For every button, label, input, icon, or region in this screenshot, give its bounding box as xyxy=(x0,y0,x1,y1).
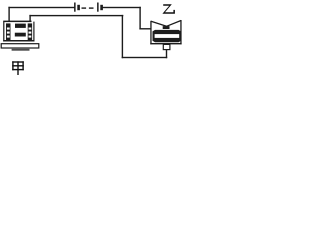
wire bottom horizontal xyxy=(122,57,168,58)
receiver case bottom edge xyxy=(150,43,181,44)
receiver right case edge xyxy=(180,20,181,44)
wire right vertical drop xyxy=(139,7,140,30)
receiver diaphragm left diagonal xyxy=(151,21,167,26)
wire inner stub vertical xyxy=(29,15,30,21)
receiver armature knob xyxy=(163,26,170,29)
wire inner vertical long xyxy=(122,15,123,58)
microphone M1 base plate xyxy=(1,44,39,48)
microphone M1 left hatched wall column xyxy=(6,23,11,40)
wire top right horizontal xyxy=(102,7,140,8)
microphone M1 base shadow xyxy=(12,49,30,51)
label 乙 xyxy=(162,4,175,14)
microphone M1 left case wall xyxy=(3,22,4,42)
microphone M1 top diaphragm bar xyxy=(3,21,31,23)
label 甲 xyxy=(12,61,24,75)
receiver left case edge xyxy=(150,21,151,45)
wire inner horizontal xyxy=(29,15,123,16)
microphone M1 body bottom edge xyxy=(3,40,34,42)
receiver coil slot xyxy=(155,34,180,38)
battery cell 2 long plate xyxy=(97,3,99,12)
receiver stem xyxy=(163,44,170,49)
receiver diaphragm right diagonal xyxy=(167,21,182,27)
wire left stub vertical xyxy=(8,7,9,21)
wire into receiver upper terminal xyxy=(139,28,151,29)
wire dash 1 xyxy=(82,7,87,8)
microphone M1 lower electrode bar xyxy=(15,33,26,37)
microphone M1 upper electrode bar xyxy=(15,24,26,28)
wire dash 2 xyxy=(89,7,94,8)
battery cell 1 long plate xyxy=(74,3,76,12)
receiver magnet and coil block xyxy=(153,30,182,42)
battery cell 1 short thick plate xyxy=(77,5,80,10)
wire top left horizontal xyxy=(8,7,74,8)
wire into receiver lower terminal xyxy=(166,50,167,58)
microphone M1 right case wall xyxy=(33,22,34,42)
microphone M1 right hatched wall column xyxy=(28,23,32,40)
battery cell 2 short thick plate xyxy=(100,5,103,10)
